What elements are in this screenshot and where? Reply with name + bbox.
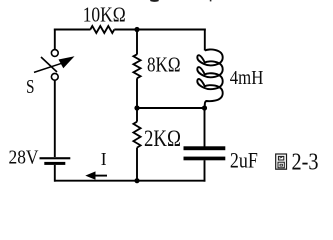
wire: 2K to bottom wire	[136, 148, 138, 181]
wire: middle horizontal	[137, 107, 205, 109]
wire: top-right horizontal segment	[114, 29, 205, 31]
wire: right branch upper	[204, 29, 206, 51]
wire: top-left horizontal segment	[54, 29, 91, 31]
wire: battery to bottom wire	[54, 165, 56, 182]
inductor 4mH	[197, 49, 222, 104]
wire: inductor to middle node	[204, 104, 206, 109]
wire: middle branch upper	[136, 30, 138, 55]
resistor 8KΩ	[133, 54, 140, 78]
wire: capacitor to bottom wire	[204, 160, 206, 181]
svg-text:2uF: 2uF	[230, 147, 258, 172]
node junction top (10K / 8K)	[134, 27, 139, 32]
wire: middle branch between 8K and node	[136, 78, 138, 108]
svg-text:2KΩ: 2KΩ	[144, 126, 181, 151]
wire: middle branch below node	[136, 108, 138, 122]
figure caption 圖 2-3	[276, 149, 319, 176]
current arrow I	[85, 171, 107, 179]
battery 28V	[40, 157, 71, 165]
node junction middle-right	[202, 105, 207, 110]
resistor 2KΩ	[133, 122, 140, 148]
svg-text:I: I	[101, 149, 107, 169]
node junction middle-left	[134, 105, 139, 110]
svg-text:S: S	[26, 77, 35, 98]
wire: left branch lower (switch to battery)	[54, 80, 56, 157]
resistor 10KΩ	[90, 26, 114, 33]
svg-text:2-3: 2-3	[292, 149, 319, 176]
svg-text:28V: 28V	[9, 146, 39, 168]
node junction bottom	[134, 178, 139, 183]
wire: left branch upper (to switch)	[54, 29, 56, 50]
svg-text:8KΩ: 8KΩ	[147, 53, 181, 77]
capacitor 2uF	[184, 146, 226, 160]
svg-text:10KΩ: 10KΩ	[83, 2, 126, 26]
wire: node to capacitor	[204, 108, 206, 147]
wire: bottom horizontal	[54, 180, 205, 182]
svg-text:4mH: 4mH	[230, 67, 263, 89]
switch S	[34, 50, 75, 81]
